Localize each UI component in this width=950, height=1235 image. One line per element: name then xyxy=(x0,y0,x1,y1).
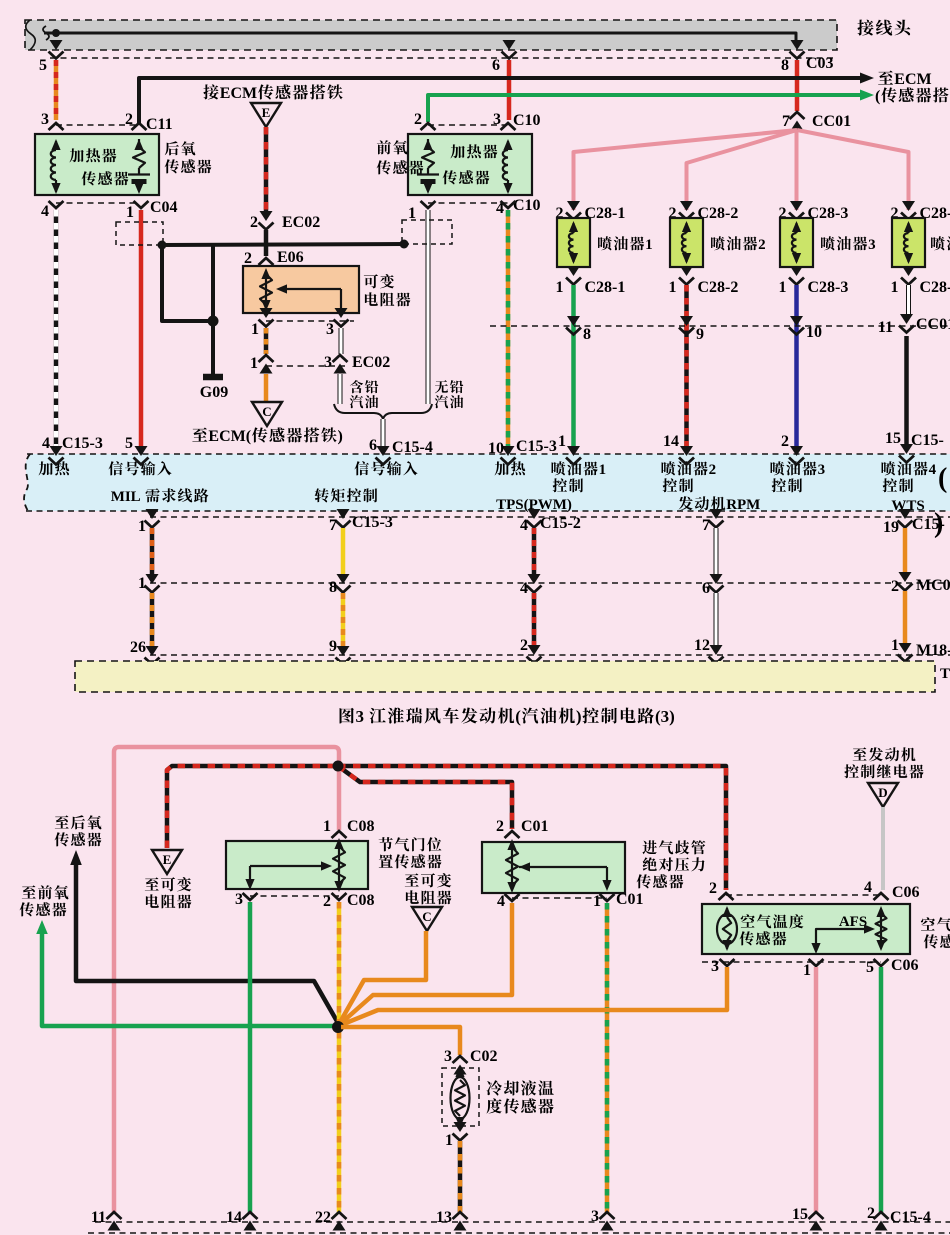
svg-text:10: 10 xyxy=(806,324,822,341)
junction dot on strip wire xyxy=(52,29,60,37)
svg-text:G09: G09 xyxy=(200,384,228,401)
connector C28-4 pin1 xyxy=(891,266,950,296)
svg-text:M18-: M18- xyxy=(916,642,950,659)
air temp thermistor xyxy=(717,906,737,951)
lower dashed line of connector row xyxy=(50,57,833,59)
svg-text:1: 1 xyxy=(250,355,258,372)
fuel injector 2 喷油器2 xyxy=(670,218,703,267)
svg-text:1: 1 xyxy=(556,279,564,296)
rear O2 heater coil element xyxy=(51,139,61,194)
ECM pin4 above band xyxy=(42,435,103,465)
svg-text:3: 3 xyxy=(818,462,826,478)
svg-text:3: 3 xyxy=(711,958,719,975)
rear O2 sensor label 传感器 xyxy=(82,171,129,185)
wire MAP pin4 to junction - orange xyxy=(339,903,512,1025)
E06 pins dashed line xyxy=(266,320,354,322)
junction dot G09 branch xyxy=(208,316,219,327)
MAP pin4 chevron xyxy=(497,893,520,910)
connector E06 pin2 xyxy=(244,249,304,277)
svg-text:22: 22 xyxy=(315,1209,331,1226)
svg-text:C08: C08 xyxy=(347,818,375,835)
E06 label 可变电阻器 xyxy=(364,274,411,306)
TPS wiper arm xyxy=(245,861,332,890)
svg-text:1: 1 xyxy=(251,321,259,338)
svg-text:5: 5 xyxy=(39,57,47,74)
svg-text:12: 12 xyxy=(694,637,710,654)
ground symbol E triangle xyxy=(251,103,281,127)
connector C11 dashed line pins 3,2 xyxy=(41,111,173,133)
label 至ECM(传感器搭铁) xyxy=(192,427,342,445)
connector C28-3 pin2 xyxy=(779,201,849,222)
connector C08 pin1 xyxy=(323,818,375,838)
front O2 heater coil element xyxy=(503,139,513,194)
ECM pin7 below band C15-3 xyxy=(329,509,393,534)
relay D triangle xyxy=(868,783,898,807)
mid pin8 xyxy=(329,574,351,596)
bottom pin14 xyxy=(226,1209,258,1231)
svg-text:C06: C06 xyxy=(892,884,920,901)
wire air pin3 to junction - orange xyxy=(341,967,727,1025)
wire D to air temp pin4 - gray xyxy=(881,807,885,890)
svg-text:ECM: ECM xyxy=(894,71,931,88)
svg-text:C15-: C15- xyxy=(911,432,944,449)
svg-text:C28-: C28- xyxy=(920,279,950,296)
svg-text:6: 6 xyxy=(492,57,500,74)
svg-text:C01: C01 xyxy=(521,818,549,835)
svg-text:7: 7 xyxy=(702,517,710,534)
connector EC02 pin1 xyxy=(250,355,274,374)
label 至可变电阻器 with C triangle lower xyxy=(405,873,452,904)
svg-text:C06: C06 xyxy=(891,957,919,974)
black wire to rear O2 with arrowhead xyxy=(70,850,338,1023)
air temp label 空气温度传感器 xyxy=(740,914,804,945)
svg-text:14: 14 xyxy=(663,433,679,450)
wire injector4 pin1 - white then black xyxy=(907,285,909,447)
svg-text:19: 19 xyxy=(883,519,899,536)
svg-text:4: 4 xyxy=(41,203,49,220)
wire RPM lower - white xyxy=(714,593,719,646)
svg-text:C02: C02 xyxy=(470,1048,498,1065)
svg-text:2: 2 xyxy=(709,462,717,478)
TCM box yellow xyxy=(75,661,950,692)
air sensor label cut 空气传感 xyxy=(921,917,950,948)
air temp pin2 chevron xyxy=(719,893,734,900)
AFS wiper arm xyxy=(811,924,875,954)
MAP pin1 chevron xyxy=(593,891,644,910)
svg-text:1: 1 xyxy=(323,818,331,835)
ground G09 symbol xyxy=(200,321,228,401)
injector label 喷油器3 xyxy=(821,236,876,253)
front O2 labels 加热器 传感器 xyxy=(443,144,498,184)
svg-text:1: 1 xyxy=(891,279,899,296)
ground bus wires xyxy=(162,244,404,321)
svg-text:4: 4 xyxy=(497,893,505,910)
ground label 接ECM传感器搭铁 xyxy=(203,84,342,102)
wire EC02 pin2 to E06 pin2 - black xyxy=(264,230,269,256)
connector C01 pin2 xyxy=(496,818,549,838)
svg-text:3: 3 xyxy=(444,1048,452,1065)
connector C28-1 pin2 xyxy=(556,201,626,222)
svg-text:ECM: ECM xyxy=(220,85,257,102)
svg-text:14: 14 xyxy=(226,1209,242,1226)
black/red branch to MAP pin2 xyxy=(338,766,512,829)
wire EC02 pin1 to C triangle - orange xyxy=(264,374,269,402)
bottom connector row dashed line xyxy=(150,654,950,656)
svg-text:2: 2 xyxy=(781,433,789,450)
svg-text:2: 2 xyxy=(891,578,899,595)
svg-text:C03: C03 xyxy=(806,55,834,72)
svg-text:E06: E06 xyxy=(277,249,304,266)
wire injector3 pin1 to ECM - blue xyxy=(794,285,799,447)
CC01 pin11 xyxy=(878,314,950,336)
svg-text:1: 1 xyxy=(138,575,146,592)
ECM pin19 below band xyxy=(883,509,945,536)
rear O2 pin2 chevron xyxy=(132,123,147,130)
svg-text:2: 2 xyxy=(709,880,717,897)
pink wire loop to TPS pin1 xyxy=(114,747,339,1212)
rear O2 pin4 chevron xyxy=(49,201,64,208)
wire pin8 to CC01 pin7 - red xyxy=(795,60,800,111)
svg-text:4: 4 xyxy=(520,517,528,534)
coolant connector C02 pin3 xyxy=(444,1048,498,1075)
MAP potentiometer xyxy=(506,839,518,893)
ECM pin1 above band xyxy=(558,433,581,465)
E06 wiper arm xyxy=(276,284,341,310)
svg-text:9: 9 xyxy=(696,326,704,343)
wire MAP pin1 - orange/green dashed xyxy=(605,903,610,1212)
fuel injector 4 喷油器4 xyxy=(892,218,925,267)
svg-text:RPM: RPM xyxy=(726,497,760,513)
bottom connector row dashed lines xyxy=(88,1222,950,1233)
svg-text:15: 15 xyxy=(885,430,901,447)
wire coolant pin1 to pin13 - black/orange dashed xyxy=(458,1141,463,1212)
svg-text:C15-: C15- xyxy=(912,516,945,533)
junction dot right xyxy=(400,240,409,249)
svg-text:1: 1 xyxy=(803,962,811,979)
label 至前氧传感器 with green arrow xyxy=(20,885,69,916)
connector CC01 row dashed line xyxy=(490,325,950,327)
wire inside terminal strip xyxy=(43,26,796,41)
rear oxygen sensor box 后氧传感器 xyxy=(35,134,159,195)
wire bracket to ECM pin6 - white xyxy=(381,419,386,447)
front O2 pin3 chevron xyxy=(501,123,516,130)
connector C28-2 pin1 xyxy=(669,266,739,296)
svg-text:(: ( xyxy=(515,707,521,726)
wire junction to coolant sensor - orange xyxy=(341,1027,460,1055)
junction dot black/red bus xyxy=(333,761,344,772)
svg-text:15: 15 xyxy=(792,1206,808,1223)
ECM pin5 above band xyxy=(125,435,149,465)
svg-text:C11: C11 xyxy=(146,116,173,133)
connector C04 dashed line pins 4,1 xyxy=(41,199,178,221)
TPS potentiometer xyxy=(333,838,345,892)
air temp pin3 chevron xyxy=(720,959,735,966)
green wire to front O2 with arrowhead xyxy=(36,920,335,1026)
air temperature sensor box 空气温度传感器 xyxy=(702,904,910,954)
MAP wiper arm xyxy=(519,862,612,891)
coolant thermistor xyxy=(451,1066,470,1128)
wire TPS pin3 to pin14 - green xyxy=(248,902,253,1212)
black/red bus to air temp pin2 xyxy=(338,766,726,890)
injector label 喷油器2 xyxy=(711,236,766,253)
connector C28-4 pin2 xyxy=(891,201,950,222)
svg-text:(3): (3) xyxy=(655,707,675,726)
svg-text:E: E xyxy=(262,105,271,120)
E06 pin3 connector xyxy=(326,308,349,338)
bottom pin12 xyxy=(694,637,724,664)
wire TPS - black/red dashed xyxy=(532,528,537,575)
svg-text:C08: C08 xyxy=(347,892,375,909)
bottom pin9 xyxy=(329,638,351,665)
bottom pin2 xyxy=(520,637,542,664)
svg-text:9: 9 xyxy=(329,638,337,655)
wire E06 pin3 to EC02 pin3 - white xyxy=(339,328,344,354)
label 至后氧传感器 with black arrow xyxy=(55,815,102,846)
mid pin6 xyxy=(702,574,724,597)
wire injector2 pin1 to ECM - black/red dashed xyxy=(684,285,689,447)
CC01 pin10 xyxy=(789,316,822,341)
MAP label 进气歧管绝对压力传感器 xyxy=(637,840,706,888)
svg-text:MC0: MC0 xyxy=(916,577,950,594)
svg-text:CC01: CC01 xyxy=(916,316,950,333)
svg-text:EC02: EC02 xyxy=(352,354,390,371)
wire rear O2 pin4 to ECM pin4 - black/white dashed xyxy=(54,210,59,446)
throttle position sensor box 节气门位置传感器 xyxy=(226,841,368,889)
svg-text:(: ( xyxy=(938,463,947,494)
svg-text:C01: C01 xyxy=(616,891,644,908)
svg-text:1: 1 xyxy=(593,893,601,910)
band labels row1 xyxy=(39,461,948,539)
svg-text:C28-2: C28-2 xyxy=(698,279,739,296)
air temp C06 top dashed line xyxy=(709,879,920,901)
svg-text:1: 1 xyxy=(558,433,566,450)
wire EC02 pin3 leaded fuel - white xyxy=(338,374,343,404)
svg-text:5: 5 xyxy=(125,435,133,452)
svg-text:C15-3: C15-3 xyxy=(62,435,103,452)
coolant pin1 connector xyxy=(445,1122,468,1149)
svg-text:1: 1 xyxy=(669,279,677,296)
air temp pin4 chevron xyxy=(874,893,889,900)
svg-text:6: 6 xyxy=(369,437,377,454)
front O2 pin1 chevron xyxy=(421,201,436,208)
svg-text:1: 1 xyxy=(445,1132,453,1149)
caption 图3 江淮瑞风车发动机(汽油机)控制电路(3) xyxy=(340,707,675,726)
wire TPS pin2 to pin22 - yellow/orange dashed xyxy=(337,902,342,1212)
svg-text:3: 3 xyxy=(235,891,243,908)
svg-text:2: 2 xyxy=(250,214,258,231)
TPS pin2 chevron xyxy=(323,892,375,910)
wire E to EC02 pin2 - black/red dashed xyxy=(264,127,269,212)
svg-text:6: 6 xyxy=(702,580,710,597)
TPS label 节气门位置传感器 xyxy=(379,837,442,868)
band labels row2 xyxy=(111,488,925,514)
svg-text:8: 8 xyxy=(329,579,337,596)
front O2 sensor cell resistor and cell xyxy=(417,139,439,194)
rear O2 heater label 加热器 xyxy=(70,148,117,162)
ECM pin7 below band RPM xyxy=(702,509,724,534)
bottom pin1 M18 xyxy=(891,637,950,662)
ECM pin2 above band xyxy=(781,433,804,465)
wire pin6 to front O2 pin3 - red xyxy=(507,60,512,120)
svg-text:1: 1 xyxy=(779,279,787,296)
ground symbol E triangle lower xyxy=(152,850,182,874)
pink harness fan from CC01 to injectors xyxy=(574,130,909,210)
svg-text:1: 1 xyxy=(891,637,899,654)
svg-text:C04: C04 xyxy=(150,199,178,216)
svg-text:2: 2 xyxy=(496,818,504,835)
svg-text:D: D xyxy=(878,785,887,800)
wire rear O2 pin1 to ECM pin5 - red xyxy=(139,210,144,446)
fuel injector 1 喷油器1 xyxy=(557,218,590,267)
air flow sensor potentiometer xyxy=(876,906,887,951)
svg-text:2: 2 xyxy=(758,237,766,253)
empty connector dashed box right xyxy=(402,220,452,244)
wire injector1 pin1 to ECM - green xyxy=(571,285,576,447)
ECM pin15 above band xyxy=(885,430,944,463)
svg-text:C10: C10 xyxy=(513,112,541,129)
black wire to ECM 至ECM xyxy=(139,71,932,124)
wire air pin5 to pin2 - green xyxy=(879,967,884,1212)
wire torque - yellow xyxy=(341,528,346,575)
mid pin2 MC0 xyxy=(891,572,950,595)
variable resistor box E06 可变电阻器 xyxy=(243,266,359,313)
coolant sensor dashed box xyxy=(442,1068,479,1126)
svg-text:1: 1 xyxy=(126,204,134,221)
ECM pin4 below band C15-2 xyxy=(520,509,581,534)
ECM pin10 above band xyxy=(488,438,557,465)
injector label 喷油器1 xyxy=(598,236,653,253)
rear O2 pin3 chevron xyxy=(49,123,64,130)
air temp pin5 chevron xyxy=(874,959,889,966)
mid connector row dashed line xyxy=(150,582,950,584)
svg-text:8: 8 xyxy=(781,57,789,74)
ECM pin6 above band xyxy=(369,437,433,465)
svg-text:4: 4 xyxy=(42,435,50,452)
mid pin4 xyxy=(520,574,542,597)
svg-text:EC02: EC02 xyxy=(282,214,320,231)
wire MIL - black/red dashed xyxy=(150,528,155,575)
svg-text:C15-2: C15-2 xyxy=(540,515,581,532)
fuel injector 3 喷油器3 xyxy=(780,218,813,267)
svg-text:2: 2 xyxy=(520,637,528,654)
svg-text:C15-4: C15-4 xyxy=(890,1209,931,1226)
svg-text:MIL: MIL xyxy=(111,489,141,505)
front O2 pin2 chevron xyxy=(421,123,436,130)
connector pin 5 xyxy=(39,40,64,74)
connector EC02 pin3 xyxy=(324,354,390,374)
TPS pin3 chevron xyxy=(235,891,258,908)
bottom pin26 xyxy=(130,639,160,665)
svg-text:8: 8 xyxy=(583,326,591,343)
svg-text:C15-3: C15-3 xyxy=(352,514,393,531)
coolant label 冷却液温度传感器 xyxy=(487,1080,554,1113)
svg-text:2: 2 xyxy=(867,1205,875,1222)
svg-text:10: 10 xyxy=(488,440,504,457)
fuel select bracket xyxy=(334,404,432,419)
svg-text:C10: C10 xyxy=(513,197,541,214)
svg-text:CC01: CC01 xyxy=(812,113,851,130)
svg-text:2: 2 xyxy=(414,111,422,128)
wire RPM - white xyxy=(714,528,719,575)
junction dot left xyxy=(158,241,167,250)
svg-text:5: 5 xyxy=(866,959,874,976)
svg-text:3: 3 xyxy=(326,321,334,338)
AFS label xyxy=(839,914,867,930)
connector C10 lower dashed line pins 1,4 xyxy=(408,197,541,222)
bottom pin13 xyxy=(436,1209,468,1231)
svg-text:ECM(: ECM( xyxy=(208,428,251,445)
wire E06 pin1 to EC02 pin1 - black/orange dashed xyxy=(264,328,269,354)
svg-text:C15-3: C15-3 xyxy=(516,438,557,455)
connector C28-3 pin1 xyxy=(779,266,849,296)
air temp pin1 chevron xyxy=(809,959,824,966)
mid pin1 xyxy=(138,574,160,593)
svg-text:4: 4 xyxy=(520,580,528,597)
svg-text:3: 3 xyxy=(591,1208,599,1225)
main junction dot lower xyxy=(332,1021,344,1033)
E06 pin1 connector xyxy=(251,308,274,338)
svg-text:T: T xyxy=(940,666,950,682)
wire WTS - orange xyxy=(903,528,908,575)
svg-text:): ) xyxy=(576,707,582,726)
svg-text:7: 7 xyxy=(329,517,337,534)
svg-text:C: C xyxy=(262,404,271,419)
connector C28-2 pin2 xyxy=(669,201,739,222)
rear O2 pin1 chevron xyxy=(134,201,149,208)
wire air pin1 to pin15 - pink xyxy=(814,967,819,1212)
ECM pin1 below band MIL xyxy=(138,509,950,535)
connector C10 dashed line pins 2,3 xyxy=(414,111,541,129)
wire pin5 to rear O2 pin3 - orange/red dashed xyxy=(54,60,59,120)
svg-text:4: 4 xyxy=(864,879,872,896)
ECM pin14 above band xyxy=(663,433,694,465)
svg-text:1: 1 xyxy=(138,518,146,535)
bottom pin22 xyxy=(315,1209,347,1231)
svg-text:C28-3: C28-3 xyxy=(808,279,849,296)
MAP sensor box 进气歧管绝对压力传感器 xyxy=(482,842,625,893)
E06 potentiometer resistor xyxy=(260,268,272,311)
ECM connector band xyxy=(24,454,950,511)
front O2 name 前氧传感器 xyxy=(377,140,424,174)
svg-text:11: 11 xyxy=(878,319,893,336)
svg-text:E: E xyxy=(163,852,172,867)
svg-text:1: 1 xyxy=(599,462,607,478)
svg-text:AFS: AFS xyxy=(839,914,867,930)
svg-text:C28-1: C28-1 xyxy=(585,279,626,296)
svg-text:11: 11 xyxy=(91,1209,106,1226)
TPS bottom dashed line xyxy=(250,895,339,897)
connector C28-1 pin1 xyxy=(556,266,626,296)
front O2 pin4 chevron xyxy=(501,201,516,208)
ground symbol C triangle lower xyxy=(412,907,442,931)
connector CC01 pin 7 xyxy=(782,112,851,131)
connector pin 8 / C03 xyxy=(781,40,834,74)
wire MIL lower - black/orange dashed xyxy=(150,593,155,647)
air temp bottom dashed C06 xyxy=(702,957,919,979)
bottom pin2 C15-4 xyxy=(867,1205,931,1231)
svg-text:4: 4 xyxy=(929,462,937,478)
svg-text:3: 3 xyxy=(356,707,365,726)
green wire to ECM sensor ground xyxy=(428,87,948,122)
front oxygen sensor box 前氧传感器 xyxy=(408,134,532,195)
bottom pin3 xyxy=(591,1208,615,1231)
svg-text:3: 3 xyxy=(493,111,501,128)
bottom pin15 xyxy=(792,1206,824,1231)
wire front O2 pin1 - white fuel select xyxy=(426,210,431,404)
svg-text:1: 1 xyxy=(645,237,653,253)
empty connector dashed box left xyxy=(116,222,163,245)
svg-text:(: ( xyxy=(875,88,880,105)
